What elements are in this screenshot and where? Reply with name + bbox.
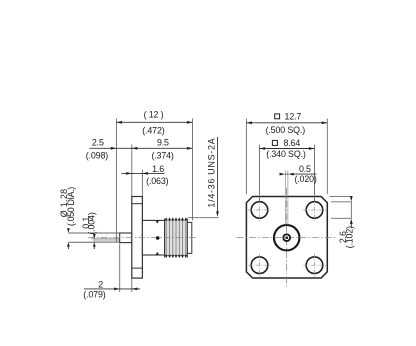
thread spec leader line xyxy=(217,137,219,212)
svg-text:(.063): (.063) xyxy=(146,176,168,186)
2.6 down arrow xyxy=(350,196,353,201)
dia 1.28 arrows xyxy=(67,228,70,233)
pin bottom extension line xyxy=(68,241,119,243)
extension line at shoulder start x=119.7 xyxy=(119,244,121,292)
extension line at body right end x=192.5 xyxy=(192,119,194,221)
thread top teeth xyxy=(165,217,188,220)
0.1 arrows xyxy=(93,234,96,239)
extension line above flange right face xyxy=(141,170,143,196)
2.6 square-top extension line xyxy=(330,195,352,197)
square symbol 8.64 xyxy=(272,140,277,145)
svg-text:(.340 SQ.): (.340 SQ.) xyxy=(266,149,306,159)
svg-text:(.098): (.098) xyxy=(86,150,108,160)
centerline (side view axis) xyxy=(88,237,196,239)
svg-text:1.6: 1.6 xyxy=(152,164,164,174)
flange (side) xyxy=(132,197,143,279)
body collar xyxy=(142,220,164,255)
thread bottom teeth xyxy=(165,255,188,258)
extension line above flange left face xyxy=(131,145,133,197)
dimension 9.5 line xyxy=(132,147,193,149)
extension line below flange left face xyxy=(131,279,133,292)
svg-text:(.374): (.374) xyxy=(151,150,173,160)
svg-text:0.5: 0.5 xyxy=(299,164,311,174)
2.6 up arrow with tail xyxy=(350,219,353,224)
mounting hole bottom-left xyxy=(251,257,268,274)
center contact dot (side view) xyxy=(156,236,160,240)
dimension 12.7 line xyxy=(246,122,327,124)
collar nub top xyxy=(156,221,160,224)
svg-text:(.004): (.004) xyxy=(87,212,97,234)
extension line square right xyxy=(326,119,328,195)
svg-text:(.500 SQ.): (.500 SQ.) xyxy=(266,125,306,135)
vertical centerline (front view) xyxy=(286,188,288,289)
mounting hole top-right xyxy=(306,202,323,219)
pin top extension line xyxy=(68,232,119,234)
svg-text:1/4-36 UNS-2A: 1/4-36 UNS-2A xyxy=(207,138,217,208)
center pin ring (front) xyxy=(282,233,291,242)
dimension (12) line xyxy=(116,121,192,123)
svg-text:2: 2 xyxy=(98,279,103,289)
center pin slot ring xyxy=(285,236,289,240)
pin slot top extension stub xyxy=(92,238,95,240)
dimension 0.5 arrows and leader xyxy=(285,173,289,175)
svg-text:(.079): (.079) xyxy=(83,290,105,300)
svg-text:8.64: 8.64 xyxy=(283,138,300,148)
pin shoulder xyxy=(120,233,132,243)
interface circle (front) xyxy=(274,225,299,250)
end cap xyxy=(187,222,191,253)
dimension 8.64 line xyxy=(260,148,315,150)
pin slot band xyxy=(94,239,120,243)
thread outline sides xyxy=(164,219,166,258)
flange square (front) xyxy=(246,197,327,279)
flange chamfer line bottom xyxy=(132,267,143,269)
2.6 dimension line xyxy=(350,202,352,219)
svg-text:( 12 ): ( 12 ) xyxy=(144,109,164,119)
svg-text:(.050 DIA.): (.050 DIA.) xyxy=(66,187,76,226)
mounting hole top-left xyxy=(251,202,268,219)
thread body fill xyxy=(165,221,188,255)
svg-text:12.7: 12.7 xyxy=(285,112,302,122)
svg-text:9.5: 9.5 xyxy=(157,138,169,148)
horizontal centerline (front view) xyxy=(237,237,336,239)
collar nub bottom xyxy=(156,252,160,255)
dimension 2.5 leader xyxy=(90,147,132,149)
extension line holes left xyxy=(259,145,261,202)
extension line square left xyxy=(245,119,247,195)
mounting hole bottom-right xyxy=(306,257,323,274)
dimension 2 leader xyxy=(84,288,132,290)
slot extension lines xyxy=(285,170,287,224)
svg-text:(.102): (.102) xyxy=(344,226,354,248)
thread vertical lines xyxy=(166,219,186,257)
svg-text:(.472): (.472) xyxy=(142,126,164,136)
flange chamfer line top xyxy=(132,203,143,205)
2.6 hole-bottom extension line xyxy=(331,217,352,219)
2.6 hole-top extension line xyxy=(331,201,352,203)
dimension 1.6 line xyxy=(121,172,164,174)
thread top extension line xyxy=(188,217,219,219)
extension line holes right xyxy=(314,145,316,202)
svg-text:2.5: 2.5 xyxy=(92,138,104,148)
extension line at pin step x=116.4 xyxy=(115,119,117,243)
svg-text:(.020): (.020) xyxy=(294,174,316,184)
square symbol 12.7 xyxy=(275,114,280,119)
